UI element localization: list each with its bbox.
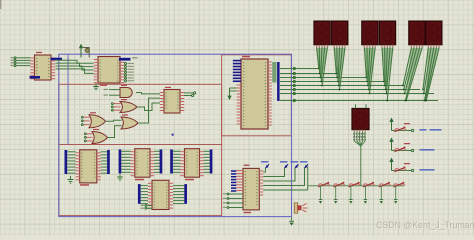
wires U4 to right bus bbox=[101, 152, 107, 173]
push button S8 bbox=[392, 147, 412, 152]
terminal of S9 bbox=[411, 169, 413, 171]
label U2 bbox=[100, 85, 107, 86]
sounder LS1 bbox=[294, 203, 307, 213]
ground below U5 bbox=[117, 175, 123, 181]
IC U5 (counter) bbox=[131, 149, 155, 178]
bus stub at U1 top-right bbox=[51, 58, 63, 61]
U8 right pins bbox=[268, 62, 272, 125]
edge artifact bbox=[0, 0, 1, 9]
label of S7 bbox=[404, 123, 442, 131]
U7 lower-left terminals bbox=[141, 205, 153, 210]
terminal of S8 bbox=[411, 149, 413, 151]
bus bar left of U4 bbox=[65, 150, 68, 174]
push button S4 bbox=[363, 182, 374, 187]
G5 input pins bbox=[84, 133, 92, 142]
wire G2 out bbox=[137, 103, 160, 111]
wires bus to U5A bbox=[121, 151, 130, 172]
IC U2 (latch) bbox=[94, 57, 124, 84]
watermark bbox=[376, 220, 474, 231]
OR gate G2 bbox=[120, 99, 137, 113]
IC U3 (comparator) bbox=[160, 90, 184, 114]
segment bus wire 7 bbox=[280, 92, 434, 94]
wire G3 out to U3 bbox=[138, 98, 160, 123]
bus bar left of U7 bbox=[138, 184, 141, 204]
U8 right wire bundle bbox=[272, 62, 276, 83]
power arrow for S9 bbox=[389, 158, 393, 171]
power flag terminal bbox=[83, 48, 89, 58]
segment bus wire 2 bbox=[280, 72, 340, 74]
push button S5 bbox=[379, 182, 390, 187]
wire from U9 column to keypad row bbox=[307, 167, 309, 191]
push button S3 bbox=[349, 182, 360, 187]
bus entry arrows above U9 wires bbox=[261, 161, 308, 168]
bus bar right of U7 bbox=[184, 184, 187, 204]
push button S1 bbox=[318, 182, 329, 187]
segment bus wire 8 bbox=[280, 99, 438, 101]
pin dots and labels right of U2 bbox=[125, 63, 135, 82]
U9 lower-left terminals bbox=[223, 193, 243, 208]
keypad row wire bbox=[308, 185, 404, 187]
segment bus wire 6 bbox=[280, 88, 420, 90]
wires bus to U6 bbox=[173, 151, 181, 172]
IC U7 (counter) bbox=[148, 180, 173, 209]
DS7 pin wires down bbox=[353, 132, 366, 186]
7-segment display DS4 bbox=[379, 21, 395, 47]
7-segment display DS5 bbox=[409, 21, 425, 47]
IC U1 (shift register) bbox=[30, 52, 55, 80]
U9 right pins bbox=[259, 171, 263, 195]
bus bar right of U6 bbox=[210, 150, 213, 174]
segment bus wire 1 bbox=[280, 67, 323, 69]
ground below S5 bbox=[380, 186, 384, 204]
label of S8 bbox=[404, 143, 435, 151]
push button S2 bbox=[333, 182, 344, 187]
segment bus wire 5 bbox=[280, 84, 404, 86]
svg-text:CSDN @Kent_J_Truman: CSDN @Kent_J_Truman bbox=[376, 220, 474, 230]
IC U8 (MCU) bbox=[241, 59, 268, 129]
red sub-circuit box Ra (decoder section) bbox=[59, 84, 222, 144]
push button S7 bbox=[392, 127, 412, 132]
bus stub at U2 top-right bbox=[119, 57, 138, 60]
red sub-circuit box Rb (counter section) bbox=[59, 145, 222, 216]
wires bus to U7 bbox=[141, 186, 148, 204]
pin fan wires of DS6 bbox=[422, 48, 440, 102]
7-segment display DS7 bbox=[352, 104, 369, 132]
OR gate G4 bbox=[89, 112, 106, 128]
ground below S1 bbox=[319, 186, 323, 204]
G2 input pins bbox=[111, 103, 120, 111]
terminal of S7 bbox=[411, 129, 413, 131]
bus bar left of U6 bbox=[170, 150, 173, 174]
blue sub-circuit border box B1 bbox=[59, 54, 292, 216]
junction marker bbox=[172, 134, 174, 136]
ground below S3 bbox=[349, 186, 353, 204]
OR gate G3 bbox=[121, 114, 138, 129]
U8 left bus pin stubs bbox=[233, 60, 241, 82]
ground below U4 bbox=[68, 176, 74, 183]
U8 left pins bbox=[237, 85, 241, 124]
7-segment display DS1 bbox=[314, 21, 330, 47]
7-segment display DS2 bbox=[332, 21, 348, 47]
label of S9 bbox=[404, 163, 435, 171]
IC U4 (counter) bbox=[76, 150, 101, 183]
wire G1 out to U3 bbox=[136, 93, 160, 94]
bus bar left of U5A bbox=[119, 150, 122, 174]
wires bus to U4 bbox=[67, 152, 75, 173]
label U5 bbox=[135, 179, 144, 181]
wires U1 to U2 bbox=[56, 60, 94, 73]
pin fan wires of DS3 bbox=[364, 48, 376, 95]
wires U5 to right bus bbox=[154, 151, 160, 172]
7-segment display DS6 bbox=[426, 21, 442, 47]
pin fan wires of DS1 bbox=[316, 48, 328, 87]
IC U9 (decoder) bbox=[243, 168, 259, 210]
U9 left bus stubs and pins bbox=[231, 170, 243, 191]
red sub-circuit box Rc (MCU section) bbox=[222, 55, 292, 136]
push button S9 bbox=[392, 167, 412, 172]
ground below U2 bbox=[93, 84, 99, 90]
AND gate G1 bbox=[120, 85, 132, 98]
IC U6 (counter) bbox=[180, 149, 203, 178]
segment bus wire 3 bbox=[280, 76, 370, 78]
ground below S2 bbox=[334, 186, 338, 204]
label U8 bbox=[242, 56, 250, 58]
segment bus wire 4 bbox=[280, 80, 388, 82]
7-segment display DS3 bbox=[362, 21, 378, 47]
wire G5 out to G3 bbox=[108, 126, 122, 138]
vertical bus right of U8 bbox=[277, 62, 280, 101]
pin fan wires of DS2 bbox=[334, 48, 346, 91]
bus bar right of U5 bbox=[160, 150, 163, 174]
OR gate G5 bbox=[92, 129, 108, 144]
wires U6 to right bus bbox=[204, 151, 210, 172]
U3 output wires with terminals bbox=[165, 87, 196, 97]
labels U9 bbox=[244, 165, 252, 214]
G1 input wires bbox=[104, 89, 121, 96]
power arrow for S7 bbox=[389, 118, 393, 131]
bus stub at U1 bottom-left bbox=[30, 76, 41, 79]
ground below S4 bbox=[364, 186, 368, 204]
power arrow for S8 bbox=[389, 138, 393, 151]
pin fan wires of DS5 bbox=[402, 48, 423, 102]
blue inner border line bbox=[67, 54, 69, 144]
G4 input pins bbox=[81, 116, 89, 125]
ground at box bottom bbox=[289, 217, 294, 226]
U8 left green wires and arrow bbox=[227, 88, 236, 100]
label U4 bbox=[80, 184, 89, 186]
power arrow (VCC) bbox=[79, 44, 83, 58]
U9 right wires to bus entries bbox=[263, 168, 308, 190]
pin fan wires of DS4 bbox=[382, 48, 394, 102]
label U6 bbox=[185, 179, 194, 181]
wire G4 out to G3 bbox=[106, 120, 122, 121]
ground below S6 bbox=[394, 186, 398, 204]
push button S6 bbox=[393, 182, 404, 187]
bus bar right of U4 bbox=[107, 150, 110, 174]
wires U7 to right bus bbox=[173, 186, 184, 204]
input wires and terminals to U1 bbox=[11, 57, 31, 67]
